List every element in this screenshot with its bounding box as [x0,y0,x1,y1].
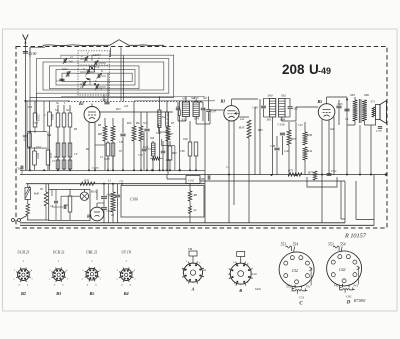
wire power vert extra [108,184,110,223]
svg-text:C51: C51 [299,295,305,299]
resistor R3 [68,143,72,170]
resistor R6 [135,112,143,170]
svg-text:1a2: 1a2 [240,118,245,121]
IF1 primary S51 [182,97,190,122]
svg-text:C2: C2 [120,179,124,183]
mid boxes col2 [146,141,155,170]
wire mid bus [134,100,215,102]
rotated labels left column [23,114,55,160]
IF2 primary S60 [267,93,276,175]
capacitor C70 [376,127,382,133]
svg-text:3a0: 3a0 [191,97,196,100]
trimmer C1 [60,55,67,64]
capacitor C105 [101,98,110,104]
svg-text:R70: R70 [83,179,90,183]
tube B4 (UY 1N rectifier) [86,203,104,221]
svg-text:C105: C105 [92,166,99,170]
svg-text:R7: R7 [170,122,175,125]
svg-text:C51: C51 [331,169,337,173]
resistor box row2 c [68,160,72,169]
trimmer C22 [93,53,99,66]
capacitor C18 [16,166,23,175]
svg-text:R60: R60 [171,152,177,155]
svg-text:R30: R30 [257,129,263,132]
svg-text:6452: 6452 [255,287,262,291]
svg-text:208: 208 [282,62,305,77]
wire chassis rail 1 [20,222,345,224]
drawing number R 10157 [344,233,367,240]
power unit box [49,189,90,220]
tube socket base diagram B2 (UCH 21) [13,251,33,297]
svg-text:541: 541 [353,283,358,287]
socket C (IF unit top view) [279,243,314,307]
svg-text:C70: C70 [376,129,382,133]
resistor R81 [188,201,197,223]
svg-text:22: 22 [93,53,97,57]
svg-text:C10: C10 [143,145,149,149]
tube socket base diagram B5 (UBL 21) [82,251,102,297]
svg-text:5c3: 5c3 [143,122,148,125]
svg-text:R75: R75 [287,169,294,173]
svg-text:U10: U10 [49,152,53,158]
svg-text:R8: R8 [193,193,198,197]
trimmer plates a [61,57,100,89]
svg-text:4a: 4a [228,272,232,276]
resistor R36 [303,122,313,145]
mid boxes col [104,141,115,170]
loop antenna turn 4 [50,66,140,89]
svg-text:R10: R10 [115,108,121,111]
trimmer C1a [80,81,86,89]
svg-text:S62: S62 [281,93,286,97]
svg-text:R8: R8 [97,132,102,136]
svg-text:R40: R40 [33,192,40,196]
capacitor C46 [280,133,290,155]
svg-text:R2: R2 [85,148,90,151]
wire bus AVC long [20,169,205,171]
svg-text:C60: C60 [180,150,185,153]
svg-text:1a0: 1a0 [124,105,129,108]
svg-text:S51: S51 [182,97,187,101]
svg-text:C106: C106 [278,122,285,126]
svg-text:UCH 21: UCH 21 [17,251,29,255]
svg-text:S30: S30 [28,106,33,109]
power box internals [50,189,66,220]
wire cluster risers [121,47,124,101]
svg-text:S40: S40 [23,135,28,138]
resistor R70 [80,179,95,186]
svg-text:R71891: R71891 [353,299,366,303]
IF2 secondary S62 [279,93,287,121]
resistor R77 [307,171,317,181]
wire drop d2 [254,107,256,175]
svg-text:B4: B4 [86,215,92,219]
svg-text:C4: C4 [96,65,100,69]
coupling capacitor C7 [56,79,65,83]
svg-text:A: A [191,287,195,292]
socket B (pickup) [228,252,262,294]
svg-text:C102: C102 [188,180,195,183]
capacitor C90 [101,184,112,199]
svg-text:B5: B5 [317,99,323,104]
svg-text:5a0: 5a0 [69,60,74,63]
capacitor C51 [327,169,337,175]
svg-text:C8: C8 [119,140,123,144]
capacitor C50 [176,102,186,121]
resistor box S103 [33,147,37,170]
wire B5 legs [322,117,334,223]
svg-text:5a6: 5a6 [47,134,52,137]
capacitor C45 [336,100,343,125]
cluster wires [80,55,106,87]
cluster numbers [62,52,100,83]
svg-text:S60: S60 [268,93,273,97]
left column links [23,132,48,149]
wire speaker drop [370,125,372,175]
svg-text:3a5: 3a5 [203,97,208,100]
resistor R8 [97,118,107,170]
band switch unit SK dotted outline [78,51,109,95]
mains switch lever [20,216,48,221]
svg-text:S54: S54 [194,117,199,121]
ballast resistor R40 hatched [25,184,40,204]
capacitor C48 [270,136,280,175]
IF1 secondary S53 [193,96,199,121]
wire left bus links [25,101,70,132]
svg-text:B3: B3 [220,99,226,104]
wire osc loop b [162,139,175,170]
wire bus mid [200,180,322,182]
svg-text:5a01: 5a01 [62,68,68,71]
wire rail corner 2 [373,175,375,226]
svg-text:C48: C48 [270,144,276,148]
label C105 on bus [92,166,99,170]
socket D (IF unit top view) [327,243,362,306]
svg-text:R7: R7 [169,132,174,136]
padder capacitor C3a [66,71,71,77]
capacitor C35 [161,141,165,170]
cluster top labels [69,54,102,63]
coil S3 [62,143,66,170]
tube B3 (UCH 21 IF) [220,99,240,122]
coil S1 (wave band coil) [55,105,60,170]
coil S2 [66,105,72,170]
capacitor C68 [199,175,210,181]
capacitor C53 [196,102,205,121]
tube socket base diagram B3 (UCH 21) [49,251,69,297]
diode arrow in B3 [235,112,239,115]
switch contact ticks [86,66,96,85]
svg-text:1a0: 1a0 [252,272,257,276]
output transformer core [359,99,361,123]
svg-text:5: 5 [83,67,85,71]
junction box outline [307,177,337,187]
svg-text:R6: R6 [135,121,140,125]
resistor box U101b [28,133,32,170]
wire rail corner 1 [322,181,345,223]
svg-text:S90: S90 [64,203,69,207]
svg-text:C33: C33 [138,154,143,157]
svg-text:C18: C18 [16,167,22,171]
wire drop d1 [204,108,206,223]
wire B2 legs [89,123,105,171]
wire B3 right lead [239,116,249,118]
svg-text:C7: C7 [56,79,60,83]
resistor R5 [132,101,136,170]
wire tone drop [167,175,186,180]
svg-text:542: 542 [334,283,339,287]
svg-text:2: 2 [81,54,83,58]
svg-text:C46: C46 [284,149,290,153]
svg-text:551: 551 [306,284,311,288]
socket A (gram connection) [182,248,207,292]
wire B3 legs [229,121,234,223]
svg-text:S81: S81 [350,93,355,97]
tube B5 (UBL 21 output) [317,99,335,120]
variable capacitor C4 [90,65,100,72]
capacitor C33 [138,132,146,170]
node loop junction [24,100,31,133]
mains terminals [12,219,21,222]
svg-text:3a0: 3a0 [162,116,167,119]
scale lamp wires [61,196,80,220]
label sprinkle 1 [33,97,349,169]
svg-text:B3: B3 [55,291,61,296]
svg-text:3: 3 [100,87,102,91]
svg-text:FM: FM [187,248,193,251]
resistor R1 [62,105,66,170]
component box C102 [186,176,200,184]
svg-text:C61: C61 [346,294,352,298]
loop antenna turn 2 [37,59,169,94]
svg-text:C45: C45 [338,102,344,106]
schematic dashed border frame [16,47,387,229]
wire B5 plate [327,97,347,101]
trimmer C3 [95,84,102,91]
trimmer C5 [83,67,90,75]
wire loop return 2 [36,93,38,120]
svg-text:1: 1 [60,55,62,59]
svg-text:R16: R16 [126,122,132,125]
svg-text:R 10157: R 10157 [344,233,367,240]
choke S90 [64,189,72,220]
loudspeaker [371,100,387,126]
svg-text:R36: R36 [306,133,313,137]
svg-text:UBL 21: UBL 21 [86,251,97,255]
wire B3 plate up [232,99,259,103]
svg-text:C52: C52 [292,269,298,273]
svg-text:R77: R77 [307,171,314,175]
label sprinkle 2 [28,102,104,159]
capacitor C2 [115,179,124,223]
svg-text:S82: S82 [364,93,369,97]
tube B2 (UCH 21 mixer) [78,101,100,123]
resistor R44 [150,157,171,162]
svg-text:S2: S2 [66,108,70,112]
wire antenna lead [24,43,26,170]
wire transformer bottom [347,121,376,125]
wire grid bus [61,96,205,98]
svg-text:3a: 3a [182,268,186,272]
svg-text:3a6: 3a6 [150,137,155,140]
capacitor C60 [253,98,270,117]
mid boxes col3 [168,141,177,170]
resistor box S104 [46,132,50,171]
svg-text:B5: B5 [88,291,94,296]
svg-text:5a0: 5a0 [330,128,335,131]
node bus dots [29,169,323,176]
svg-text:S61: S61 [267,117,272,121]
svg-text:-49: -49 [318,66,331,76]
wire left third [26,101,28,170]
loop antenna top edge [30,40,164,57]
wire rectifier top [90,189,98,200]
capacitor C91 [101,199,112,223]
svg-text:UY 1N: UY 1N [121,251,131,255]
svg-text:R40: R40 [165,159,171,162]
capacitor C100 [23,52,37,57]
resistor box row2 b [62,160,66,169]
svg-text:C-: C- [226,166,229,169]
loop antenna turn 6 [62,73,132,81]
resistor R33 [287,122,296,175]
resistor R9 [111,118,115,170]
svg-text:6: 6 [101,69,103,73]
resistor R35 [238,120,251,223]
svg-text:2a: 2a [203,268,207,272]
revision code R71891 [353,299,366,303]
resistor box U102 [48,101,52,170]
capacitor C47 [206,97,216,122]
choke L1 [111,184,115,223]
svg-text:UCH 21: UCH 21 [53,251,65,255]
wire IF1 to B3 grid [196,110,224,124]
svg-text:553: 553 [328,243,334,247]
svg-text:B2: B2 [78,101,84,106]
svg-text:554: 554 [340,243,346,247]
output transformer primary S81 [350,93,357,125]
right boxes col [183,121,198,170]
svg-text:R102: R102 [90,190,98,194]
svg-text:552: 552 [286,284,291,288]
wire rail corner 3 [356,181,374,220]
svg-text:C38: C38 [33,122,38,125]
resistor R7 [166,112,174,175]
svg-text:B2: B2 [20,291,26,296]
svg-text:B: B [238,288,242,293]
svg-text:42: 42 [194,208,198,212]
antenna symbol [23,35,29,44]
svg-text:S106: S106 [51,114,55,121]
svg-text:553: 553 [281,243,287,247]
svg-text:S71: S71 [371,100,376,104]
wire output HT [346,97,348,125]
loop antenna turn 5 [56,70,135,86]
small box P1 [178,101,180,171]
loop antenna turn 1 [30,47,174,97]
svg-text:S103: S103 [36,153,40,160]
wire chassis rail 2 [20,224,374,226]
wire power vert a [49,183,123,190]
wire switch cluster drop [104,48,111,102]
svg-text:U102: U102 [37,114,41,121]
svg-text:C105: C105 [101,98,108,102]
resistor box row2 a [54,156,60,169]
bus junction dots 2 [43,169,197,171]
wire HT drop [346,125,361,176]
capacitor C47 [344,109,349,111]
trimmer C2 [81,54,88,62]
socket B pin labels [233,261,249,285]
tube socket base diagram B4 (UY 1N) [116,251,136,297]
svg-text:R3: R3 [73,128,78,131]
resistor R75 [287,169,302,177]
coil S40 oscillator [156,97,167,171]
svg-text:L1: L1 [107,179,112,183]
title 208 U-49 [282,62,331,77]
loop antenna turn 3 [43,62,164,90]
label C103 [111,214,114,217]
wire IF2 plate drop [295,122,297,176]
wire bus HT long [20,173,387,176]
svg-text:R35: R35 [238,126,245,130]
wire IF2 out [282,107,319,121]
wire drop d3 [259,99,261,175]
capacitor can C100 outline [121,186,204,218]
resistor R34 [303,147,313,175]
wire loop return 1 [29,97,31,170]
output transformer secondary S82 [362,93,369,121]
capacitor C10 [143,112,150,170]
wire osc loop a [159,124,170,140]
svg-text:C62: C62 [339,268,345,272]
resistor box S106 [33,101,37,133]
svg-text:554: 554 [293,243,299,247]
svg-text:D: D [346,300,351,305]
coil S41 [166,101,169,171]
capacitor C8 [119,118,126,170]
svg-text:R8: R8 [97,124,102,127]
svg-text:C100: C100 [130,198,138,202]
label C106 [278,122,285,126]
socket A pin labels [186,260,201,283]
svg-text:R34: R34 [306,149,313,153]
capacitor C62 [285,98,298,117]
trimmer C6 [96,69,103,79]
svg-text:C60: C60 [253,106,259,110]
svg-text:9.82: 9.82 [183,138,188,141]
svg-text:U10: U10 [36,146,41,149]
resistor R41 [26,204,30,220]
svg-text:C10: C10 [298,124,303,127]
svg-text:B4: B4 [123,291,129,296]
pilot lamp [80,189,88,200]
resistor R42 [40,184,48,220]
resistor R80 [188,184,197,202]
svg-text:R33: R33 [290,137,296,141]
resistor R2 [56,143,60,170]
wire power top rail [26,183,205,185]
wire B2 plate to IF1 [100,111,173,113]
label L1C2 [107,179,112,183]
AVC dashed line [68,100,203,102]
